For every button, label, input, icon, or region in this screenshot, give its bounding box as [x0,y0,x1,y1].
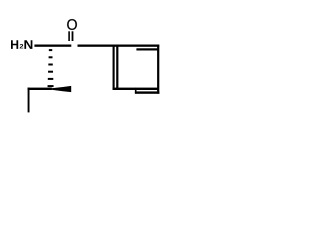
bond C1-ring (collinear with ring top edge) [78,45,160,47]
benzene ring left edge line 1 [113,45,115,90]
bond C3-C4 ethyl CH2 (horizontal) [28,88,52,90]
carbonyl oxygen label O [67,19,77,30]
benzene ring top edge inner double-bond line [136,48,158,50]
benzene ring bottom outer double-bond line [135,91,160,93]
benzene ring bottom edge [113,88,159,90]
bond N-C2 [34,45,71,47]
amine label H2N [11,40,32,49]
benzene ring right edge [157,45,159,94]
benzene ring left edge line 2 (double bond inner) [116,45,118,90]
solid wedge bond C3-methyl [51,86,71,92]
bond C4-C5 ethyl CH3 (vertical) [28,88,30,113]
double bond C1=O line 2 [72,31,74,41]
benzene ring bottom double-bond left cap [135,88,137,94]
double bond C1=O line 1 [68,31,70,41]
hashed wedge bond C2-C3 (6 dashes) [48,49,54,87]
